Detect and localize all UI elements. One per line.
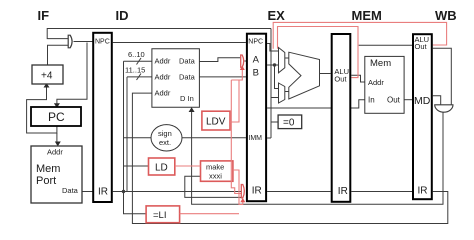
svg-text:Out: Out: [334, 75, 347, 84]
slash 6..10: [137, 58, 142, 65]
arrowhead into +4: [44, 83, 50, 88]
svg-text:Out: Out: [387, 96, 401, 105]
svg-text:PC: PC: [48, 110, 65, 124]
memory Mem: [365, 56, 404, 113]
pipeline register MEM/WB: [413, 34, 432, 199]
pipeline register ID/EX: [247, 34, 266, 202]
svg-text:Data: Data: [179, 57, 196, 66]
svg-text:Port: Port: [36, 175, 56, 187]
wire IR ID/EX to EX/MEM: [267, 191, 331, 193]
svg-text:IF: IF: [38, 8, 50, 23]
svg-text:xxxi: xxxi: [209, 172, 222, 181]
svg-text:11..15: 11..15: [125, 66, 145, 75]
wire mux M2 to ALU: [285, 57, 289, 59]
wire MD to WB mux: [433, 96, 441, 105]
wire IR step under IR-mux: [185, 192, 242, 198]
wire A-mux to A: [245, 60, 247, 62]
box LDV: [202, 111, 230, 130]
red wire fwd bus to A-mux: [231, 68, 242, 81]
svg-text:MEM: MEM: [352, 8, 382, 23]
svg-text:Data: Data: [179, 73, 196, 82]
red wire make out: [233, 170, 243, 205]
red forwarding outer L (WB to EX): [273, 22, 446, 48]
wire branch-target feedback top line: [47, 29, 271, 39]
svg-text:NPC: NPC: [248, 39, 263, 46]
svg-text:Addr: Addr: [368, 78, 384, 87]
svg-text:B: B: [253, 68, 259, 79]
svg-text:NPC: NPC: [95, 39, 110, 46]
red wire =LI out: [180, 213, 239, 215]
svg-text:In: In: [368, 96, 375, 105]
sign extender: [151, 125, 182, 151]
svg-text:+4: +4: [41, 71, 53, 82]
mux WB write-back select: [435, 105, 453, 112]
wire PC to Mem Port Addr: [56, 133, 58, 145]
mux M3 (ALU input 2): [279, 83, 285, 103]
red wire down to IR-mux: [231, 80, 241, 194]
mux IR-input red: [241, 185, 244, 198]
wire regfile Data1 to A-mux: [199, 58, 240, 62]
svg-text:Addr: Addr: [155, 73, 171, 82]
wire IR to sign ext: [124, 137, 151, 139]
register file: [152, 49, 200, 108]
svg-text:WB: WB: [435, 8, 457, 23]
svg-text:MD: MD: [414, 95, 431, 107]
wire Mem Port Data to IR: [82, 191, 93, 193]
mux A-input red: [241, 55, 244, 67]
comparator =0: [278, 115, 302, 129]
svg-text:D In: D In: [180, 94, 194, 103]
svg-text:IR: IR: [252, 186, 262, 197]
svg-text:Data: Data: [62, 186, 79, 195]
wire IR to regfile write addr: [132, 93, 447, 223]
box make xxxi: [201, 161, 233, 181]
pipeline register EX/MEM: [332, 34, 351, 202]
wire IR EX/MEM to MEM/WB: [351, 191, 412, 193]
mux M2 (ALU input 1): [279, 48, 285, 73]
red arrowhead into A-mux: [240, 66, 245, 70]
wire 11..15 to regfile: [127, 76, 152, 78]
arrowhead into regfile D In: [189, 107, 195, 112]
wire A branch to mux M3: [275, 65, 279, 89]
svg-text:ID: ID: [116, 8, 129, 23]
svg-text:Mem: Mem: [370, 58, 391, 69]
wire IF mux to NPC: [74, 41, 94, 43]
wire EX vertical branch/imm: [270, 29, 272, 139]
arrowhead into Mem Port: [55, 142, 61, 147]
pipeline register IF/ID: [93, 33, 112, 202]
wire IR fanout vertical 1: [124, 61, 147, 213]
wire B bypass to Mem In: [267, 100, 365, 108]
red forwarding inner L (MEM to EX): [278, 27, 359, 78]
wire IR to LD: [124, 165, 149, 167]
wire NPC-line branch to PC: [57, 43, 87, 104]
wire +4 to IF mux: [48, 45, 69, 64]
wire IR fanout vertical 2: [126, 77, 128, 192]
svg-text:make: make: [206, 163, 224, 172]
ALU: [289, 52, 320, 99]
wire WB mux out to regfile D In: [192, 109, 443, 204]
svg-text:IMM: IMM: [248, 135, 262, 142]
svg-text:=LI: =LI: [153, 210, 166, 221]
arrowhead into PC: [54, 103, 60, 108]
comparator =LI: [146, 206, 180, 223]
svg-text:sign: sign: [158, 129, 172, 138]
wire IR to make xxxi: [185, 176, 201, 191]
svg-text:LDV: LDV: [206, 117, 226, 128]
junction dot IR fanout: [122, 190, 125, 193]
wire 6..10 to regfile: [124, 60, 152, 62]
svg-text:IR: IR: [338, 186, 348, 197]
svg-text:Addr: Addr: [47, 148, 63, 157]
wire Mem Out to MD: [404, 99, 412, 101]
wire ALUout to Mem Addr: [351, 75, 365, 82]
junction dot A line: [273, 63, 276, 66]
wire NPC to mux M2: [267, 44, 278, 52]
red wire LD to make: [175, 165, 201, 167]
wire ALU out to EX/MEM: [320, 73, 331, 75]
svg-text:LD: LD: [155, 163, 168, 174]
svg-text:Addr: Addr: [155, 57, 171, 66]
wire regfile Data2 to B: [199, 76, 246, 78]
wire PC to +4: [27, 87, 57, 133]
adder +4: [32, 65, 63, 84]
wire to =0: [271, 121, 278, 123]
register PC: [31, 107, 81, 126]
svg-text:Addr: Addr: [155, 89, 171, 98]
svg-text:EX: EX: [268, 8, 286, 23]
wire NPC chain IF/ID to ID/EX: [113, 42, 246, 44]
wire IR out of IF/ID: [113, 191, 242, 193]
detector LD: [149, 158, 175, 175]
svg-text:Mem: Mem: [36, 163, 60, 175]
wire ALUout EX/MEM to MEM/WB: [359, 44, 412, 46]
svg-text:IR: IR: [98, 186, 108, 197]
red arrowhead into IR-mux: [240, 198, 245, 202]
svg-text:IR: IR: [418, 186, 428, 197]
wire WB ALUout to WB mux: [433, 48, 452, 104]
wire IMM out: [267, 137, 271, 139]
mux M1 IF pc-select: [68, 35, 72, 48]
svg-text:ext.: ext.: [159, 138, 171, 147]
memory Mem Port: [31, 146, 82, 203]
wire A to mux M2: [267, 64, 278, 66]
svg-text:=0: =0: [283, 118, 295, 129]
svg-text:Out: Out: [415, 42, 428, 51]
svg-text:A: A: [253, 55, 260, 66]
wire imm to mux M3: [271, 97, 279, 99]
slash 11..15: [137, 74, 142, 81]
red wire LDV out: [230, 80, 239, 122]
wire mux M3 to ALU: [285, 91, 289, 93]
svg-text:6..10: 6..10: [128, 50, 145, 59]
wire sign ext to IMM: [182, 137, 246, 139]
